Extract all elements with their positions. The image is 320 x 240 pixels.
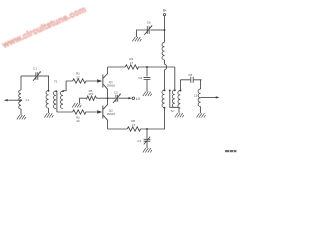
svg-text:22: 22 bbox=[76, 75, 80, 79]
inductor L1 bbox=[20, 76, 22, 90]
junction T1 secondary 1 top bbox=[55, 90, 57, 92]
mid node bbox=[107, 97, 109, 99]
inductor L2 bbox=[200, 80, 202, 89]
svg-text:2N918: 2N918 bbox=[107, 83, 115, 87]
svg-text:27: 27 bbox=[130, 61, 134, 65]
T2 inner wire to ground bbox=[169, 89, 171, 91]
ground under L2 bbox=[200, 107, 202, 114]
wire C3 to ground bbox=[146, 80, 148, 92]
arrow output terminal bbox=[216, 96, 220, 98]
T1 secondary winding 2 bbox=[60, 91, 63, 109]
capacitor C8 bbox=[180, 79, 201, 81]
ground T2 bbox=[175, 113, 184, 117]
resistor R6 27 bbox=[127, 127, 140, 131]
input arrow bbox=[4, 99, 8, 101]
capacitor C6 (trimmer) bbox=[150, 29, 164, 31]
wire input to L1 tap bbox=[8, 99, 21, 101]
wire B+ down bbox=[164, 16, 166, 30]
arrow to LO terminal bbox=[128, 97, 132, 99]
capacitor C2 (trimmer) bbox=[116, 95, 118, 102]
node rail/C4 bbox=[146, 128, 148, 130]
resistor R5 470 bbox=[86, 96, 96, 100]
svg-text:27: 27 bbox=[132, 123, 136, 127]
junction T2 A top bbox=[164, 89, 166, 91]
resistor R4 27 bbox=[125, 65, 138, 69]
node rail/C3 bbox=[146, 66, 148, 68]
transformer T1 primary bbox=[48, 76, 50, 91]
RF choke bbox=[164, 30, 166, 42]
junction T2 C top bbox=[179, 90, 181, 92]
bottom rail wire bbox=[108, 108, 165, 129]
wire C2 to LO terminal bbox=[119, 97, 129, 99]
svg-text:www.circuitstune.com: www.circuitstune.com bbox=[0, 4, 88, 50]
resistor R2 22 bbox=[73, 110, 86, 114]
svg-text:2N918: 2N918 bbox=[107, 112, 115, 116]
wire L1 top to C1 bbox=[21, 75, 35, 77]
output wire and arrow bbox=[201, 96, 217, 98]
capacitor C4 bbox=[146, 129, 148, 139]
svg-text:C8: C8 bbox=[188, 73, 192, 77]
junction T2 A bottom bbox=[164, 107, 166, 109]
ground under C4 bbox=[143, 148, 152, 152]
svg-text:L2: L2 bbox=[194, 94, 198, 98]
svg-text:LO: LO bbox=[136, 97, 141, 101]
capacitor C3 bbox=[146, 67, 148, 76]
svg-text:C1: C1 bbox=[33, 67, 37, 71]
junction T1 primary top bbox=[48, 90, 50, 92]
top rail wire bbox=[108, 66, 175, 68]
T1 secondary winding 1 bbox=[53, 91, 56, 109]
svg-text:B+: B+ bbox=[163, 8, 167, 12]
resistor R1 22 bbox=[73, 79, 86, 83]
svg-text:L1: L1 bbox=[26, 98, 30, 102]
svg-text:C6: C6 bbox=[147, 20, 151, 24]
ground under L1 bbox=[20, 109, 22, 115]
ground under T1 primary bbox=[48, 108, 50, 113]
wire T1 secondary 1 down to Q2 base row bbox=[56, 91, 58, 112]
terminal LO bbox=[132, 97, 134, 99]
wire R5 to ground bbox=[80, 98, 87, 103]
wire mid node left bbox=[96, 97, 107, 99]
svg-text:T2: T2 bbox=[170, 109, 174, 113]
wire to Q2 base bbox=[57, 111, 98, 113]
junction T2 B top bbox=[174, 89, 176, 91]
wire C1 to T1 bbox=[38, 75, 49, 77]
bias ground bbox=[72, 103, 81, 107]
wire C4 to ground bbox=[146, 141, 148, 148]
junction T1 secondary 2 top bbox=[62, 90, 64, 92]
svg-text:T1: T1 bbox=[54, 80, 58, 84]
svg-text:C4: C4 bbox=[137, 139, 141, 143]
transformer T2 winding A bbox=[162, 90, 165, 108]
wire hop over rail bbox=[165, 64, 167, 69]
svg-text:Q1: Q1 bbox=[109, 80, 113, 84]
wire T1 secondary 2 up to Q1 base row bbox=[63, 81, 98, 91]
bottom right stamp bbox=[225, 150, 236, 152]
transistor Q1 bbox=[97, 79, 102, 82]
ground under C3 bbox=[143, 92, 152, 96]
transistor Q2 bbox=[97, 110, 102, 113]
watermark bbox=[0, 4, 88, 50]
svg-text:C2: C2 bbox=[114, 91, 118, 95]
terminal B+ bbox=[163, 14, 165, 16]
svg-text:22: 22 bbox=[76, 119, 80, 123]
svg-text:C3: C3 bbox=[138, 76, 142, 80]
T2 winding C bbox=[179, 80, 181, 91]
junction L1 tap bbox=[20, 99, 22, 101]
capacitor C1 (trimmer) bbox=[36, 72, 38, 79]
svg-text:470: 470 bbox=[88, 92, 93, 96]
wire mid node right bbox=[108, 97, 115, 99]
ground under C6 bbox=[132, 37, 141, 41]
T2 winding B bbox=[174, 67, 176, 90]
svg-text:Q2: Q2 bbox=[109, 108, 113, 112]
junction B+ / C6 bbox=[164, 29, 166, 31]
wire C6 to ground bbox=[137, 30, 148, 37]
